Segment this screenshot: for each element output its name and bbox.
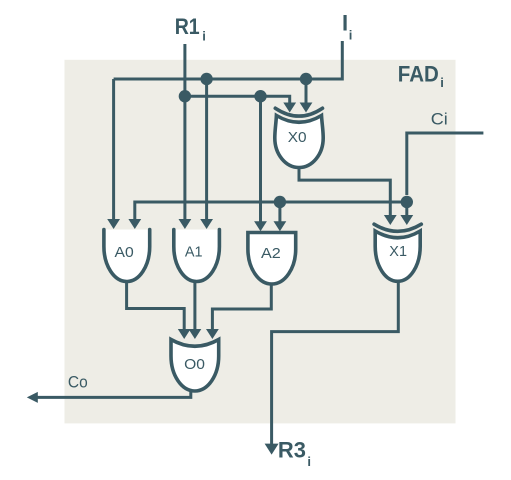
wire A2 output to O0 input 3 bbox=[212, 284, 271, 331]
wire I_i branch down to X0 right input bbox=[305, 79, 308, 105]
svg-text:i: i bbox=[349, 27, 353, 42]
svg-text:I: I bbox=[342, 10, 348, 35]
junction Ci at (406.8,202) bbox=[401, 196, 413, 208]
label R3_i bbox=[278, 438, 311, 470]
wire R1 branch down to A2 left input bbox=[259, 96, 262, 223]
wire A1 output to O0 input 2 bbox=[193, 282, 196, 332]
arrow into A0 pin 1 bbox=[107, 219, 120, 229]
svg-text:A2: A2 bbox=[261, 245, 281, 262]
arrow into A2 pin 1 bbox=[254, 221, 267, 231]
junction on I_i rail at x=206.6 bbox=[200, 73, 212, 85]
net Ci : input line from right bbox=[407, 133, 484, 195]
svg-text:O0: O0 bbox=[184, 356, 205, 373]
svg-text:FAD: FAD bbox=[398, 62, 439, 87]
junction on I_i rail at x=306 bbox=[300, 73, 312, 85]
wire I_i branch down to A1 right input bbox=[205, 79, 208, 221]
net R1_i : input drop bbox=[183, 44, 186, 221]
junction R1 rail start at (184.9,96.2) bbox=[179, 90, 191, 102]
arrow into A0 pin 2 bbox=[128, 219, 141, 229]
label I_i bbox=[342, 10, 352, 42]
net R3_i : X1 output down, left, down to bottom bbox=[272, 281, 399, 447]
svg-text:X0: X0 bbox=[288, 129, 307, 146]
wire Ci drop into X1 right input bbox=[405, 202, 408, 217]
svg-text:R1: R1 bbox=[175, 14, 200, 39]
arrow into O0 pin 1 bbox=[178, 329, 191, 339]
svg-text:i: i bbox=[307, 454, 311, 469]
arrow Co pointing left bbox=[27, 392, 38, 403]
arrow into X1 pin 2 bbox=[400, 215, 413, 225]
module FAD_i body bbox=[65, 60, 456, 424]
junction on Ci rail at x=279.9 bbox=[274, 196, 286, 208]
arrow into X0 pin 1 bbox=[283, 103, 296, 113]
svg-text:X1: X1 bbox=[389, 243, 407, 260]
and-gate A2 bbox=[248, 233, 296, 285]
arrow R3_i pointing down bbox=[265, 444, 279, 455]
arrow into A1 pin 2 bbox=[200, 219, 213, 229]
wire A0 output to O0 input 1 bbox=[127, 282, 185, 332]
xor-gate X1 bbox=[374, 224, 421, 281]
arrow into X0 pin 2 bbox=[300, 103, 313, 113]
arrow into X1 pin 1 bbox=[384, 215, 397, 225]
wire Ci branch down to A2 right input bbox=[278, 202, 281, 224]
wire Ci rail y=202 to A0 right input bbox=[135, 202, 407, 221]
svg-text:A0: A0 bbox=[115, 244, 134, 261]
svg-text:Ci: Ci bbox=[431, 110, 448, 129]
wire X0 output to X1 left input bbox=[299, 168, 390, 218]
svg-text:i: i bbox=[202, 29, 206, 44]
svg-text:R3: R3 bbox=[278, 438, 306, 463]
label FAD_i bbox=[398, 62, 444, 90]
arrow into O0 pin 3 bbox=[206, 329, 219, 339]
wire I_i left drop into A0 left input bbox=[112, 79, 115, 221]
svg-text:Co: Co bbox=[68, 373, 88, 392]
arrow into O0 pin 2 bbox=[189, 329, 202, 339]
or-gate O0 bbox=[171, 340, 219, 392]
label R1_i bbox=[175, 14, 206, 44]
junction on R1 rail at x=260.5 bbox=[254, 90, 266, 102]
net I_i : input drop and top horizontal rail y=79 bbox=[114, 41, 343, 79]
xor-gate X0 bbox=[275, 108, 323, 167]
and-gate A1 bbox=[174, 230, 220, 282]
wire R1 rail y=96.2 to X0 left input bbox=[185, 96, 290, 104]
net Co : O0 output to left edge bbox=[35, 391, 191, 398]
arrow into A1 pin 1 bbox=[179, 219, 192, 229]
svg-text:A1: A1 bbox=[185, 244, 203, 261]
svg-text:i: i bbox=[440, 75, 444, 90]
arrow into A2 pin 2 bbox=[274, 221, 287, 231]
and-gate A0 bbox=[104, 230, 150, 282]
